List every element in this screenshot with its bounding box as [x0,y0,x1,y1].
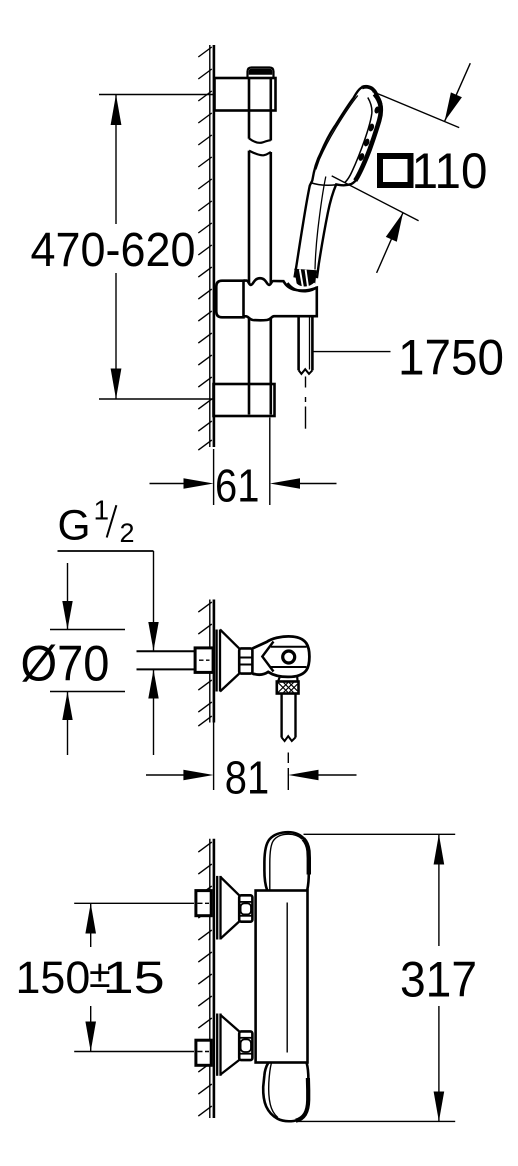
svg-text:G: G [58,502,91,549]
rail (lower segment) [249,151,271,415]
lower union nut [239,1031,252,1060]
shower hose [299,318,313,371]
holder head [252,636,309,677]
label underline / leader [58,550,154,552]
svg-text:61: 61 [215,459,259,511]
dimension 61 [150,418,337,506]
holder cup rim [288,283,318,291]
svg-text:2: 2 [120,518,135,548]
hand shower handle inner line [315,177,326,270]
wall (top view) [210,45,214,447]
hose break end [299,369,313,374]
rail cap [248,68,274,79]
supply pipe behind wall [137,651,196,669]
hand shower spray-face dark band [355,94,381,181]
hand shower handle seam [310,183,336,186]
holder head chords [271,646,307,648]
svg-text:317: 317 [400,952,477,1008]
svg-text:1: 1 [94,495,110,526]
dimension square 110 (head size) [373,92,460,128]
dimension 150 +/- 15 [90,903,92,1051]
knurled nut [277,682,299,694]
holder neck [278,677,280,682]
svg-text:81: 81 [225,752,269,804]
dimension 470-620 [99,95,213,400]
lower escutcheon [217,1014,239,1076]
svg-text:470-620: 470-620 [31,223,196,277]
upper inlet centerline [74,902,194,904]
wall hatching (middle view) [198,602,212,726]
svg-text:Ø70: Ø70 [21,636,110,692]
lower wall bracket [214,384,275,416]
lower inlet centerline [74,1051,194,1053]
escutcheon (middle view) [217,630,240,692]
dimension 81 [146,723,357,791]
outlet tube [282,694,296,738]
slider holder knob [216,281,243,318]
hand shower left inner line [316,96,358,170]
top wall bracket [215,78,276,111]
svg-text:150: 150 [16,952,91,1003]
tube break end [282,736,296,741]
hand shower outline [295,86,382,278]
hand shower cap thick arc [362,87,376,94]
svg-text:110: 110 [412,143,488,199]
wall (bottom view) [210,839,214,1118]
hose centerline (dash-dot) [305,377,307,429]
upper inlet nut behind wall [196,891,211,916]
dimension 1750 (hose length) [314,351,391,353]
holder pivot circle [283,651,295,663]
dimension diameter 70 [50,563,125,755]
swivel rings [239,648,252,673]
hand shower face inner edge [345,98,372,183]
upper union nut [239,895,252,921]
tube centerline [287,753,289,764]
holder head notch [262,642,273,672]
dimension 317 [297,834,455,1121]
upper escutcheon [217,876,239,940]
bottom handle [263,1063,308,1122]
lower inlet nut behind wall [196,1040,211,1065]
wall (middle view) [210,600,214,723]
wall hatching (bottom view) [198,842,212,1116]
arrow upper [445,63,471,121]
rail (upper segment) [249,78,271,141]
arrow lower [377,213,403,273]
wall hatching (top view) [198,47,212,450]
square symbol [380,156,411,185]
top handle [264,832,308,890]
rail break symbol [249,138,271,142]
slider holder body [244,278,317,320]
pipe nut [195,648,213,673]
spray mode nubs [357,106,380,162]
svg-text:15: 15 [103,952,165,1003]
thermostat body [256,891,308,1063]
svg-text:1750: 1750 [398,330,504,386]
hand shower handle end cone [294,269,317,288]
